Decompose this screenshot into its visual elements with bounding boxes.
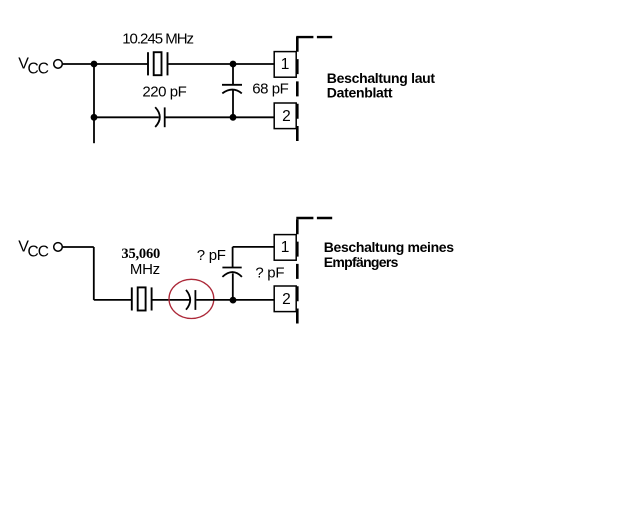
svg-text:Empfängers: Empfängers xyxy=(324,254,399,270)
IC U1 dashed outline left edge xyxy=(296,37,299,141)
capacitor C2 68pF top lead xyxy=(232,64,234,85)
capacitor C1 220pF straight right plate xyxy=(164,107,166,127)
wire stub below node B xyxy=(93,117,95,143)
capacitor C4 top lead xyxy=(232,247,234,268)
wire node B to capacitor C1 xyxy=(94,116,159,118)
svg-text:35,060: 35,060 xyxy=(121,246,160,262)
IC U1 pin 1 box xyxy=(274,52,296,78)
wire capacitor C1 to node D xyxy=(166,116,234,118)
wire node A to crystal Y1 xyxy=(94,63,148,65)
IC U2 pin 1 box xyxy=(274,235,296,261)
wire capacitor C4 to pin 1 box (bottom IC) xyxy=(233,246,275,248)
capacitor C4 bottom lead from node E xyxy=(232,273,234,300)
wire crystal Y1 to node C xyxy=(168,63,233,65)
node D junction dot (top-right lower) xyxy=(230,114,237,121)
capacitor C3 curved left plate xyxy=(186,290,190,310)
crystal Y1 right plate xyxy=(167,52,169,75)
svg-text:220 pF: 220 pF xyxy=(142,84,186,101)
IC U1 dashed outline top edge xyxy=(296,36,332,38)
wire crystal Y2 to capacitor C3 xyxy=(153,299,190,301)
svg-text:10.245 MHz: 10.245 MHz xyxy=(122,30,193,47)
svg-text:Datenblatt: Datenblatt xyxy=(327,85,393,101)
svg-text:? pF: ? pF xyxy=(197,247,226,264)
capacitor C1 220pF curved left plate xyxy=(155,107,160,127)
wire capacitor C3 to node E xyxy=(196,299,233,301)
svg-text:1: 1 xyxy=(281,239,290,256)
capacitor C2 68pF curved bottom plate xyxy=(222,90,242,94)
wire node A down to node B xyxy=(93,64,95,117)
svg-text:CC: CC xyxy=(28,244,49,261)
VCC terminal (top, open circle) xyxy=(54,60,63,69)
crystal Y1 left plate xyxy=(147,52,149,75)
capacitor C2 68pF bottom lead xyxy=(232,90,234,117)
wire VCC terminal right xyxy=(63,246,94,248)
IC U2 dashed outline left edge xyxy=(296,219,299,325)
svg-text:Beschaltung laut: Beschaltung laut xyxy=(327,70,436,86)
wire bottom row to crystal Y2 xyxy=(94,299,132,301)
capacitor C3 straight right plate xyxy=(194,290,196,310)
svg-text:Beschaltung meines: Beschaltung meines xyxy=(324,239,454,255)
crystal Y1 body rectangle xyxy=(154,52,162,75)
node A junction dot (top-left upper) xyxy=(91,61,98,68)
svg-text:? pF: ? pF xyxy=(255,265,284,282)
wire VCC terminal to node A xyxy=(63,63,94,65)
crystal Y2 body rectangle xyxy=(138,287,146,310)
svg-text:2: 2 xyxy=(282,108,291,125)
svg-text:2: 2 xyxy=(282,291,291,308)
IC U1 pin 2 box xyxy=(274,103,296,129)
node E junction dot (bottom circuit) xyxy=(230,297,237,304)
IC U2 pin 2 box xyxy=(274,286,296,312)
crystal Y2 right plate xyxy=(151,287,153,310)
svg-text:MHz: MHz xyxy=(130,261,160,278)
capacitor C4 top plate xyxy=(222,267,241,269)
svg-text:1: 1 xyxy=(281,56,290,73)
wire node D to pin 2 box (top IC) xyxy=(233,116,274,118)
svg-text:CC: CC xyxy=(28,61,49,78)
wire corner down to bottom row xyxy=(93,247,95,300)
svg-text:68 pF: 68 pF xyxy=(252,80,288,97)
crystal Y2 left plate xyxy=(131,287,133,310)
wire node C to pin 1 box (top IC) xyxy=(233,63,274,65)
wire node E to pin 2 box (bottom IC) xyxy=(233,299,274,301)
node B junction dot (top-left lower) xyxy=(91,114,98,121)
VCC terminal (bottom, open circle) xyxy=(54,243,63,252)
IC U2 dashed outline top edge xyxy=(296,217,332,219)
capacitor C4 curved bottom plate xyxy=(222,272,242,277)
red highlight circle around capacitor C3 xyxy=(169,279,214,318)
node C junction dot (top-right upper) xyxy=(230,61,237,68)
capacitor C2 68pF top plate xyxy=(222,84,242,86)
